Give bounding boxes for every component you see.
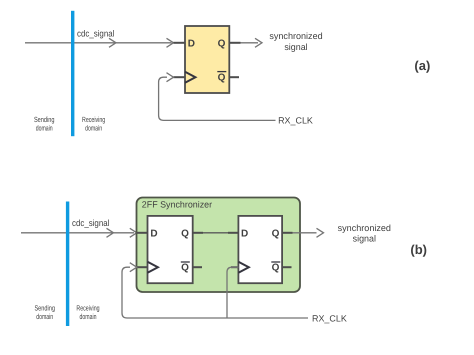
svg-text:signal: signal xyxy=(353,234,376,244)
flip-flop U3 body xyxy=(238,216,282,283)
svg-text:(a): (a) xyxy=(414,58,430,73)
U3 clock triangle xyxy=(238,262,248,273)
U3 clock pin stub xyxy=(231,266,238,268)
wire cdc_signal (a) xyxy=(25,42,172,44)
flip-flop U1 body (a) xyxy=(185,26,229,93)
svg-text:signal: signal xyxy=(284,42,307,52)
arrow into clock pin of U1 (a) xyxy=(167,73,174,82)
svg-text:cdc_signal: cdc_signal xyxy=(77,28,114,38)
svg-text:D: D xyxy=(188,38,195,49)
2FF Synchronizer block xyxy=(137,198,301,293)
svg-text:Q: Q xyxy=(218,73,226,84)
arrow into 2FF synchronizer D input (b) xyxy=(130,228,137,237)
U3 Q pin stub xyxy=(282,232,292,234)
wire U2 Q to U3 D xyxy=(203,232,228,234)
U3 D pin stub xyxy=(228,232,238,234)
svg-text:domain: domain xyxy=(36,312,53,321)
junction arrow on cdc_signal wire (a) xyxy=(109,38,116,47)
U2 Q pin stub xyxy=(193,232,203,234)
U1 clock pin stub xyxy=(174,76,186,78)
arrow into D pin of U1 (a) xyxy=(167,38,174,47)
svg-text:D: D xyxy=(241,229,248,240)
svg-text:2FF Synchronizer: 2FF Synchronizer xyxy=(142,200,212,210)
wire RX_CLK to clock pin (a) xyxy=(159,77,276,120)
U1 Qbar pin stub xyxy=(229,76,239,78)
svg-text:Q: Q xyxy=(272,263,280,274)
svg-text:Q: Q xyxy=(181,263,189,274)
svg-text:synchronized: synchronized xyxy=(269,31,322,41)
svg-text:Q: Q xyxy=(181,229,189,240)
wire Q output (a) xyxy=(241,42,259,44)
svg-text:RX_CLK: RX_CLK xyxy=(278,115,313,125)
U1 Q pin stub xyxy=(229,42,240,44)
arrow into U2 clock (b) xyxy=(130,263,137,272)
svg-text:RX_CLK: RX_CLK xyxy=(312,313,347,323)
U1 clock triangle xyxy=(185,72,195,83)
svg-text:cdc_signal: cdc_signal xyxy=(72,218,109,228)
wire RX_CLK trunk (b) xyxy=(122,267,308,318)
U2 clock triangle xyxy=(148,262,158,273)
svg-text:domain: domain xyxy=(36,124,53,133)
svg-text:Q: Q xyxy=(272,229,280,240)
junction arrow on cdc_signal wire (b) xyxy=(107,228,114,237)
svg-text:synchronized: synchronized xyxy=(338,223,391,233)
arrow on output wire (b) xyxy=(317,228,324,237)
wire RX_CLK branch to U3 clock xyxy=(227,267,238,318)
U3 Qbar pin stub xyxy=(282,266,291,268)
U1 D pin stub xyxy=(174,42,186,44)
arrow on Q output wire (a) xyxy=(255,38,262,47)
domain boundary line (a) xyxy=(71,11,74,136)
U2 clock pin stub xyxy=(137,266,148,268)
wire synchronized output (b) xyxy=(293,232,317,234)
svg-text:domain: domain xyxy=(85,124,102,133)
wire cdc_signal (b) xyxy=(21,232,134,234)
U2 D pin stub xyxy=(137,232,148,234)
flip-flop U2 body xyxy=(148,216,193,283)
domain boundary line (b) xyxy=(66,202,69,327)
svg-text:Q: Q xyxy=(218,38,226,49)
U2 Qbar pin stub xyxy=(193,266,202,268)
svg-text:(b): (b) xyxy=(410,242,427,257)
svg-text:domain: domain xyxy=(80,312,97,321)
svg-text:D: D xyxy=(150,229,157,240)
